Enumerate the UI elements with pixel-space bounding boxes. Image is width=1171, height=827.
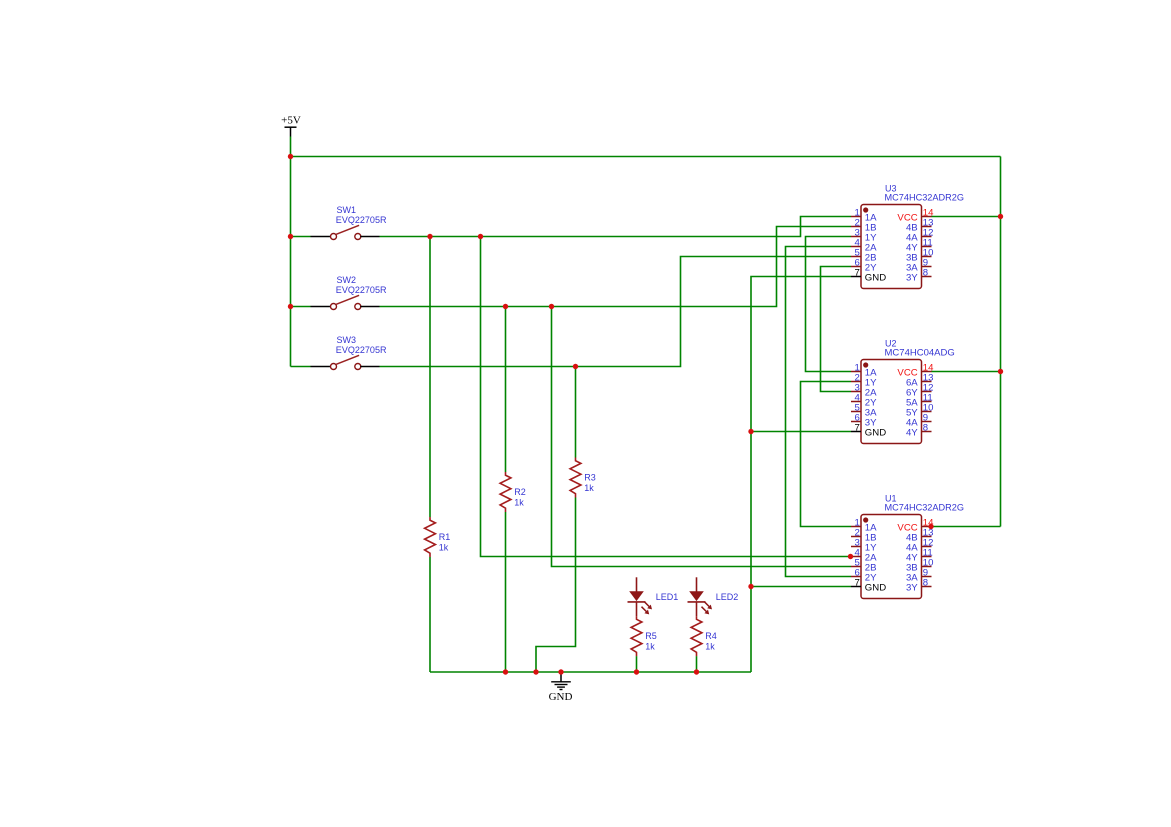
R2 labels (514, 487, 526, 508)
wire SW2 output to U3 pin 2 (380, 227, 852, 307)
svg-text:LED1: LED1 (656, 592, 679, 602)
svg-text:8: 8 (923, 423, 928, 434)
R3 labels (584, 472, 596, 493)
R4 labels (705, 631, 717, 652)
resistor R1 1k (425, 517, 436, 557)
svg-text:R2: R2 (514, 487, 526, 497)
svg-text:GND: GND (549, 691, 573, 703)
svg-text:8: 8 (923, 578, 928, 589)
U3 pin 3 (1Y) (851, 228, 877, 244)
U3 pin 1 (1A) (851, 208, 877, 224)
U1 pin 6 (2Y) (851, 568, 877, 584)
svg-text:R4: R4 (705, 631, 717, 641)
svg-text:GND: GND (865, 582, 886, 593)
U1 pin 7 (GND) (851, 578, 886, 594)
U3 pin 9 (3A) (906, 258, 932, 274)
U2 reference and value labels (885, 338, 955, 357)
U3 pin 8 (3Y) (906, 268, 932, 284)
svg-text:SW3: SW3 (337, 335, 357, 345)
svg-text:1k: 1k (584, 483, 594, 493)
SW1 labels (336, 205, 387, 225)
U2 pin 9 (4A) (906, 413, 932, 429)
U1 reference and value labels (885, 493, 965, 512)
U1 pin 13 (4B) (906, 528, 934, 544)
wire U2 1Y to U1 1A (801, 382, 852, 527)
wire U1 VCC pin 14 (932, 526, 1001, 528)
svg-text:3Y: 3Y (906, 582, 918, 593)
switch SW1 EVQ22705R (311, 225, 380, 239)
svg-text:R5: R5 (645, 631, 657, 641)
svg-text:R1: R1 (439, 532, 451, 542)
U2 pin 8 (4Y) (906, 423, 932, 439)
U1 pin 4 (2A) (851, 548, 877, 564)
wire U3 VCC pin 14 (932, 216, 1001, 218)
wire SW3 output to U3 pin 5 (380, 257, 852, 367)
U2 pin 7 (GND) (851, 423, 886, 439)
U3 pin 5 (2B) (851, 248, 877, 264)
svg-text:7: 7 (854, 268, 859, 279)
svg-text:R3: R3 (584, 472, 596, 482)
svg-text:7: 7 (854, 423, 859, 434)
U1 pin 14 (VCC) (897, 518, 934, 534)
wire VCC right vertical rail (1000, 157, 1002, 527)
ground symbol GND (549, 672, 573, 703)
U2 pin 5 (3A) (851, 403, 877, 419)
R5 labels (645, 631, 657, 652)
U2 pin 12 (6Y) (906, 383, 934, 399)
wire U3 2Y to U2 2A (821, 267, 852, 392)
LED LED2 (688, 577, 713, 616)
svg-text:LED2: LED2 (716, 592, 739, 602)
U1 pin 11 (4Y) (906, 548, 933, 564)
wire GND rail (430, 671, 751, 673)
U1 pin 2 (1B) (851, 528, 877, 544)
junction +5V / top rail (288, 154, 293, 159)
wire +5V to SW1 (291, 236, 311, 238)
IC U1 MC74HC32ADR2G (861, 515, 922, 599)
U1 pin 10 (3B) (906, 558, 934, 574)
U2 pin 6 (3Y) (851, 413, 877, 429)
IC U2 MC74HC04ADG (861, 360, 922, 444)
U2 pin 1 (1A) (851, 363, 877, 379)
U3 pin 14 (VCC) (897, 208, 934, 224)
wire R4 bottom to GND rail (696, 656, 698, 672)
svg-text:MC74HC04ADG: MC74HC04ADG (885, 347, 955, 357)
U3 pin 12 (4A) (906, 228, 934, 244)
svg-text:7: 7 (854, 578, 859, 589)
wire SW2 branch to U1 pin 5 (552, 307, 852, 567)
junction U1 pin 4 (848, 554, 853, 559)
junction SW1 / R1 branch (427, 234, 432, 239)
U3 pin 4 (2A) (851, 238, 877, 254)
junction VCC rail / U2 pin 14 (998, 369, 1003, 374)
junction SW2 / R2 branch (503, 304, 508, 309)
U3 pin 6 (2Y) (851, 258, 877, 274)
svg-text:SW1: SW1 (337, 205, 357, 215)
svg-text:MC74HC32ADR2G: MC74HC32ADR2G (885, 502, 965, 512)
power symbol +5V (281, 114, 301, 136)
junction GND rail / ground symbol (558, 669, 563, 674)
U3 pin 10 (3B) (906, 248, 934, 264)
svg-text:1k: 1k (645, 641, 655, 651)
U3 pin 7 (GND) (851, 268, 886, 284)
wire R2 bottom to GND rail (505, 512, 507, 672)
U1 pin 8 (3Y) (906, 578, 932, 594)
junction VCC rail / U3 pin 14 (998, 214, 1003, 219)
svg-text:1k: 1k (514, 497, 524, 507)
switch SW3 EVQ22705R (311, 355, 380, 369)
wire SW1 branch down to R1 (429, 237, 431, 518)
junction GND / U1 pin 7 (748, 584, 753, 589)
wire +5V to SW3 (291, 366, 311, 368)
resistor R3 1k (570, 458, 581, 498)
wire R3 bottom step to GND rail (536, 498, 576, 673)
resistor R4 1k (691, 616, 702, 656)
wire +5V vertical bus (left) (290, 137, 292, 367)
svg-text:EVQ22705R: EVQ22705R (336, 345, 387, 355)
U1 pin 12 (4A) (906, 538, 934, 554)
U2 pin 10 (5Y) (906, 403, 934, 419)
junction GND rail / R5 (634, 669, 639, 674)
junction SW2 / U1 pin5 branch (549, 304, 554, 309)
svg-text:GND: GND (865, 272, 886, 283)
wire U2 VCC pin 14 (932, 371, 1001, 373)
IC U3 MC74HC32ADR2G (861, 205, 922, 289)
U2 pin 4 (2Y) (851, 393, 877, 409)
svg-text:8: 8 (923, 268, 928, 279)
junction GND rail / R4 (694, 669, 699, 674)
wire SW1 branch to U1 pin 4 (481, 237, 851, 557)
junction U1 pin 14 (928, 524, 933, 529)
resistor R2 1k (500, 472, 511, 512)
svg-text:GND: GND (865, 427, 886, 438)
svg-text:MC74HC32ADR2G: MC74HC32ADR2G (885, 192, 965, 202)
svg-text:4Y: 4Y (906, 427, 918, 438)
junction GND rail / R3 step (533, 669, 538, 674)
R1 labels (439, 532, 451, 553)
U3 pin 13 (4B) (906, 218, 934, 234)
LED1 label (656, 592, 679, 602)
LED LED1 (628, 577, 653, 616)
junction SW1 / U1 pin4 branch (478, 234, 483, 239)
wire U1 pin 7 GND (751, 586, 851, 588)
svg-text:EVQ22705R: EVQ22705R (336, 285, 387, 295)
junction SW3 / R3 branch (573, 364, 578, 369)
U2 pin 13 (6A) (906, 373, 934, 389)
wire R1 bottom to GND rail (429, 557, 431, 672)
wire SW3 branch down to R3 (575, 367, 577, 458)
wire +5V top rail (291, 156, 1001, 158)
wire +5V to SW2 (291, 306, 311, 308)
wire SW2 branch down to R2 (505, 307, 507, 473)
U2 pin 2 (1Y) (851, 373, 877, 389)
svg-text:+5V: +5V (281, 114, 301, 126)
wire U2 pin 7 GND (751, 431, 851, 433)
svg-text:1k: 1k (705, 641, 715, 651)
U3 pin 2 (1B) (851, 218, 877, 234)
SW3 labels (336, 335, 387, 355)
U1 pin 5 (2B) (851, 558, 877, 574)
junction +5V / SW2 (288, 304, 293, 309)
wire U3 pin 7 GND down to rail (751, 277, 851, 673)
junction GND / U2 pin 7 (748, 429, 753, 434)
LED2 label (716, 592, 739, 602)
U1 pin 3 (1Y) (851, 538, 877, 554)
U2 pin 3 (2A) (851, 383, 877, 399)
junction +5V / SW1 (288, 234, 293, 239)
U1 pin 9 (3A) (906, 568, 932, 584)
U2 pin 11 (5A) (906, 393, 933, 409)
wire U3 1Y to U2 1A (806, 237, 852, 372)
svg-text:1k: 1k (439, 542, 449, 552)
switch SW2 EVQ22705R (311, 295, 380, 309)
U1 pin 1 (1A) (851, 518, 877, 534)
svg-text:SW2: SW2 (337, 275, 357, 285)
U3 reference and value labels (885, 183, 965, 202)
resistor R5 1k (631, 616, 642, 656)
junction GND rail / R2 (503, 669, 508, 674)
wire SW1 output to U3 pin 1 (380, 217, 852, 237)
U3 pin 11 (4Y) (906, 238, 933, 254)
svg-text:EVQ22705R: EVQ22705R (336, 215, 387, 225)
wire R5 bottom to GND rail (636, 656, 638, 672)
wire U3 2A to U1 2Y (786, 247, 852, 577)
U2 pin 14 (VCC) (897, 363, 934, 379)
SW2 labels (336, 275, 387, 295)
svg-text:3Y: 3Y (906, 272, 918, 283)
